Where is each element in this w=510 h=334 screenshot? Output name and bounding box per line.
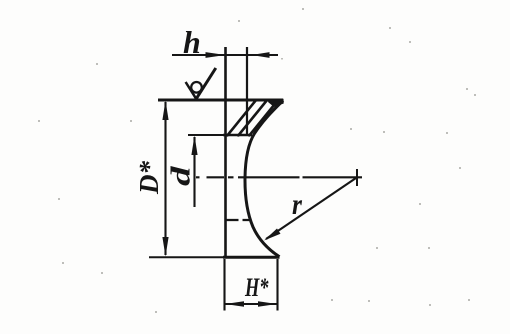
arrow H* left (pointing left): [225, 301, 244, 307]
arrow h left (pointing right at left face): [206, 52, 226, 58]
arrow D* bottom: [162, 237, 168, 257]
svg-text:D*: D*: [134, 161, 164, 195]
svg-text:d: d: [166, 165, 196, 186]
arrow H* right (pointing right): [258, 301, 277, 307]
wire bore top edge (section) with extension for d: [188, 134, 224, 136]
arrow D* top: [162, 101, 168, 121]
dimension line H*: [225, 303, 278, 305]
arrow r leader (pointing down-left onto curve): [264, 229, 281, 241]
arrowheads: [162, 52, 280, 307]
dimension line h (horizontal, arrows outside pointing in): [172, 54, 278, 56]
wire extension line for h at minimum profile width: [246, 47, 248, 136]
wire bore bottom hidden (dashed) line: [226, 219, 252, 221]
dimension line D* (vertical, arrows both ends): [164, 102, 166, 255]
extension lines for H* below part: [223, 259, 225, 311]
leader line for r from radius center to curve: [266, 178, 356, 239]
svg-text:H*: H*: [244, 273, 269, 302]
svg-text:r: r: [292, 188, 303, 221]
svg-text:h: h: [183, 24, 201, 60]
radius center cross tick: [356, 169, 358, 186]
wire concave profile curve of radius r: [245, 101, 283, 257]
scan noise speckles: [38, 8, 476, 313]
arrow d top: [191, 136, 197, 156]
centerline (axis) dash-dot: [196, 176, 362, 178]
wire top edge of part (extended left as extension line for D*): [158, 99, 283, 102]
arrow h right (pointing left at extension line): [252, 52, 270, 58]
wire bottom edge of part (extended left as extension line for D*): [149, 256, 224, 258]
wire left face of part (also extension line for h dimension): [224, 47, 227, 258]
surface finish symbol (circle-in-vee, no material removal): [186, 82, 197, 99]
hatching of cut section: [227, 100, 301, 137]
wedge at top right corner (thick junction of curve and top edge): [268, 99, 284, 107]
dimension line d (vertical, single arrow up, passes centerline): [193, 137, 195, 207]
